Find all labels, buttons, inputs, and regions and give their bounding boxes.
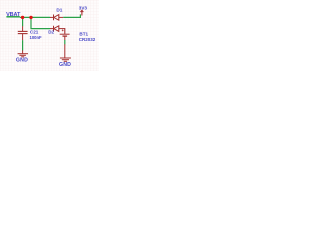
wire junction to D2 [31,17,50,28]
wire D1 to 3V3 [63,14,80,17]
ground right [60,44,71,61]
wire C21 to GND [22,40,24,50]
svg-text:GND: GND [59,62,71,68]
capacitor C21 [18,26,28,40]
junction at D2 branch [29,16,32,19]
wire D2 to BT1 [64,28,66,34]
svg-text:3V3: 3V3 [79,5,88,10]
wire junction to C21 [22,17,24,26]
wire BT1 to GND [64,40,66,44]
svg-text:D1: D1 [56,8,62,13]
svg-text:BT1: BT1 [79,31,88,36]
junction at C21 branch [21,16,24,19]
battery BT1 [60,29,70,40]
diode D1 [50,15,63,21]
svg-text:GND: GND [16,58,28,64]
power symbol 3V3 arrow [80,10,83,16]
background grid [0,0,99,71]
diode D2 [50,26,65,32]
svg-text:VBAT: VBAT [6,12,21,18]
power symbol VBAT bar [6,16,19,18]
svg-text:D2: D2 [48,30,54,35]
svg-text:100nF: 100nF [30,35,43,40]
ground left [18,50,28,57]
wire VBAT to D1 [20,16,50,18]
svg-text:CR2032: CR2032 [79,37,96,42]
